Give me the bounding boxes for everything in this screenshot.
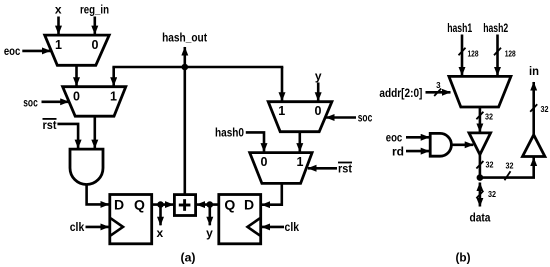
label hash2 <box>483 21 508 35</box>
flip-flop FF2 <box>219 195 261 244</box>
svg-text:rst: rst <box>338 162 352 176</box>
label reg_in input <box>80 3 109 17</box>
label addr[2:0] <box>379 86 422 100</box>
wire rst into AND gate G1 <box>57 124 78 148</box>
tri-state buffer T2 <box>523 135 545 157</box>
label y output <box>206 226 213 240</box>
svg-text:y: y <box>315 69 322 83</box>
svg-text:addr[2:0]: addr[2:0] <box>379 86 422 100</box>
tri-state buffer T1 <box>469 133 491 155</box>
label rst right (overlined) <box>338 162 352 176</box>
svg-text:0: 0 <box>92 38 99 52</box>
svg-text:Q: Q <box>134 197 145 213</box>
svg-text:rst: rst <box>43 118 57 132</box>
label soc right <box>358 110 373 124</box>
label in <box>529 64 539 78</box>
mux M5 <box>449 76 511 107</box>
wire hash1 into mux M5 <box>461 35 464 76</box>
caption (a) <box>181 250 196 264</box>
wire mux M4 output to FF2 D <box>262 183 282 204</box>
svg-text:y: y <box>206 226 213 240</box>
svg-text:(a): (a) <box>181 250 196 264</box>
wire soc into mux M3 <box>326 116 356 119</box>
label soc left <box>23 95 38 109</box>
wire hash0 into mux M4 <box>246 132 264 151</box>
wire rst into mux M4 <box>308 167 337 170</box>
svg-text:hash_out: hash_out <box>162 31 207 45</box>
svg-text:x: x <box>157 226 164 240</box>
junction x node <box>157 201 164 208</box>
svg-text:32: 32 <box>506 161 514 170</box>
label eoc <box>4 44 21 58</box>
svg-text:in: in <box>529 64 539 78</box>
bus slash hash1 128 <box>459 48 479 59</box>
bus slash hash2 128 <box>494 48 516 59</box>
svg-text:(b): (b) <box>456 250 471 264</box>
label data <box>470 211 491 225</box>
label hash0 <box>215 126 244 140</box>
svg-text:32: 32 <box>541 105 549 114</box>
wire data node to buffer T2 <box>480 158 534 178</box>
junction hash_out node <box>182 64 189 71</box>
svg-text:1: 1 <box>278 104 285 118</box>
label clk right <box>285 220 300 234</box>
svg-text:32: 32 <box>488 190 496 199</box>
wire x output arrow <box>159 205 162 226</box>
svg-text:x: x <box>55 3 62 17</box>
svg-text:eoc: eoc <box>386 131 403 145</box>
wire y into mux M3 <box>317 83 320 101</box>
wire buffer T1 output to data node <box>479 155 482 178</box>
svg-text:rd: rd <box>392 144 404 158</box>
wire FF1 Q to adder <box>152 203 174 206</box>
svg-text:soc: soc <box>358 110 373 124</box>
bus slash mux out 32 <box>476 112 493 122</box>
wire feedback into mux M3 input 1 <box>281 67 284 101</box>
AND gate G2 <box>430 133 451 156</box>
label x output <box>157 226 164 240</box>
wire clk into FF2 <box>262 226 284 229</box>
bus slash T1 out 32 <box>476 160 494 169</box>
flip-flop FF1 <box>110 195 152 244</box>
label clk left <box>70 220 85 234</box>
svg-text:0: 0 <box>261 155 268 169</box>
svg-text:Q: Q <box>224 197 235 213</box>
wire FF2 Q to adder <box>197 203 219 206</box>
label x input <box>55 3 62 17</box>
svg-text:0: 0 <box>315 104 322 118</box>
wire hash2 into mux M5 <box>496 35 499 76</box>
wire feedback horizontal hash_out net <box>112 66 283 69</box>
svg-text:0: 0 <box>73 89 80 103</box>
wire AND G2 output to buffer T1 enable <box>452 144 474 147</box>
label rd <box>392 144 404 158</box>
svg-text:data: data <box>470 211 491 225</box>
wire mux M5 output to buffer T1 <box>479 107 482 132</box>
svg-text:reg_in: reg_in <box>80 3 109 17</box>
label hash_out <box>162 31 207 45</box>
wire mux M2 output to AND gate G1 <box>94 116 97 148</box>
svg-text:hash2: hash2 <box>483 21 508 35</box>
svg-text:128: 128 <box>468 49 479 58</box>
svg-text:32: 32 <box>486 160 494 169</box>
mux M4 (rst select) <box>250 153 312 184</box>
svg-text:D: D <box>244 197 254 213</box>
svg-text:1: 1 <box>55 38 62 52</box>
label eoc (b) <box>386 131 403 145</box>
junction data node <box>477 174 484 181</box>
svg-text:eoc: eoc <box>4 44 21 58</box>
wire mux M1 output to mux M2 <box>75 65 78 86</box>
bus slash data 32 <box>476 190 496 199</box>
wire x into mux M1 <box>57 17 60 35</box>
mux M1 (eoc select) <box>45 35 110 65</box>
svg-text:D: D <box>114 197 124 213</box>
svg-text:128: 128 <box>505 49 516 58</box>
wire data bidirectional arrow <box>479 183 482 207</box>
wire rd into AND gate G2 <box>406 150 429 153</box>
label y top input <box>315 69 322 83</box>
mux M3 (soc select right) <box>268 102 332 132</box>
wire reg_in into mux M1 <box>94 17 97 35</box>
bus slash horizontal 32 <box>505 161 514 180</box>
wire soc into mux M2 <box>42 101 69 104</box>
svg-text:32: 32 <box>485 112 493 121</box>
svg-text:soc: soc <box>23 95 38 109</box>
wire eoc into AND gate G2 <box>406 136 429 139</box>
svg-text:clk: clk <box>70 220 85 234</box>
label hash1 <box>447 21 472 35</box>
bus slash in 32 <box>530 104 549 114</box>
mux M2 (soc select) <box>63 87 126 117</box>
bus slash addr 3 <box>434 81 441 96</box>
svg-text:hash0: hash0 <box>215 126 244 140</box>
wire adder output to hash_out <box>184 47 187 195</box>
wire clk into FF1 <box>86 226 109 229</box>
wire y output arrow <box>209 205 212 226</box>
wire eoc into mux M1 <box>22 50 50 53</box>
wire mux M3 output to mux M4 <box>298 132 301 152</box>
wire buffer T2 output to in <box>532 82 535 135</box>
svg-text:3: 3 <box>436 81 441 90</box>
wire AND G1 output to flip-flop FF1 D <box>87 185 109 205</box>
svg-text:clk: clk <box>285 220 300 234</box>
svg-text:1: 1 <box>110 89 117 103</box>
wire feedback into mux M2 input 1 <box>112 67 115 86</box>
caption (b) <box>456 250 471 264</box>
junction y node <box>207 201 214 208</box>
svg-text:1: 1 <box>297 155 304 169</box>
svg-text:hash1: hash1 <box>447 21 472 35</box>
adder U1 <box>174 195 195 216</box>
AND gate G1 <box>70 149 103 184</box>
wire addr into mux M5 <box>426 91 451 94</box>
label rst left (overlined) <box>43 118 57 132</box>
